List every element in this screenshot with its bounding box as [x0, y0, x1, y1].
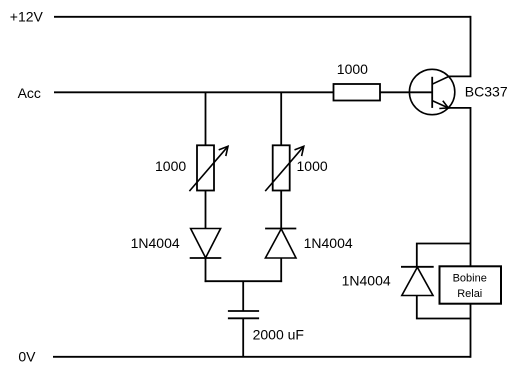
resistor R2 arrow — [265, 146, 304, 191]
svg-text:Bobine: Bobine — [453, 273, 487, 285]
wire R1 to D1 — [205, 191, 207, 229]
svg-text:1000: 1000 — [297, 158, 328, 174]
svg-text:Relai: Relai — [457, 288, 482, 300]
node Acc label — [18, 85, 41, 101]
wire C1 to 0V — [242, 318, 244, 357]
part label BC337 for Q1 — [465, 83, 508, 99]
relay coil box Bobine Relai — [440, 266, 502, 303]
wire 0V rail — [53, 356, 471, 358]
svg-text:1N4004: 1N4004 — [342, 272, 391, 288]
resistor R2 1000 variable body — [273, 145, 290, 190]
node +12V label — [10, 9, 44, 25]
svg-text:2000 uF: 2000 uF — [253, 327, 304, 343]
diode D2 1N4004 — [265, 229, 296, 259]
svg-text:1N4004: 1N4004 — [131, 235, 180, 251]
value label 1N4004 for D1 — [131, 235, 180, 251]
wire emitter vertical to 0V — [448, 108, 470, 358]
value label 1N4004 for D2 — [304, 235, 353, 251]
transistor Q1 BC337 — [409, 69, 454, 114]
svg-text:+12V: +12V — [10, 9, 44, 25]
wire join horizontal — [205, 280, 283, 282]
wire R2 to D2 — [280, 191, 282, 229]
wire right branch from Acc to R2 — [280, 92, 282, 145]
wire D2 to join — [280, 258, 282, 282]
resistor R3 1000 body — [334, 84, 381, 101]
value label 1000 for R2 — [297, 158, 328, 174]
wire D1 to join — [205, 258, 207, 282]
svg-text:1N4004: 1N4004 — [304, 235, 353, 251]
wire flyback top — [417, 244, 471, 267]
svg-text:1000: 1000 — [337, 61, 368, 77]
diode D3 1N4004 flyback — [401, 267, 434, 296]
svg-text:BC337: BC337 — [465, 83, 508, 99]
value label 1000 for R1 — [155, 158, 186, 174]
wire collector vertical to +12V — [449, 16, 471, 77]
resistor R1 1000 variable body — [197, 145, 214, 190]
value label 1000 for R3 — [337, 61, 368, 77]
wire Acc rail — [54, 91, 432, 93]
wire flyback bottom — [417, 296, 471, 319]
resistor R1 arrow — [189, 146, 228, 191]
diode D1 1N4004 — [190, 229, 222, 259]
svg-text:1000: 1000 — [155, 158, 186, 174]
value label 1N4004 for D3 — [342, 272, 391, 288]
wire +12V rail — [54, 16, 471, 18]
capacitor C1 2000 uF — [228, 311, 259, 318]
value label 2000 uF for C1 — [253, 327, 304, 343]
svg-text:0V: 0V — [18, 349, 36, 365]
wire left branch from Acc to R1 — [205, 92, 207, 145]
svg-text:Acc: Acc — [18, 85, 41, 101]
node 0V label — [18, 349, 36, 365]
wire join to C1 — [242, 281, 244, 311]
